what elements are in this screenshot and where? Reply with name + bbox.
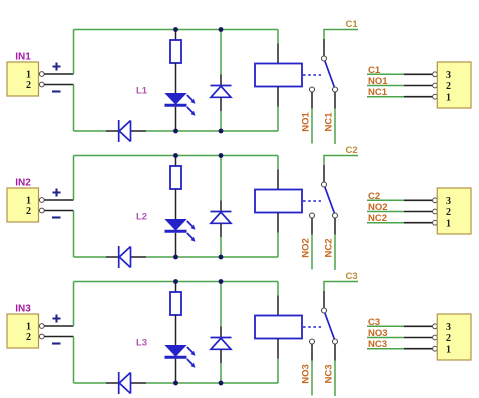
switch SW2 common terminal (322, 182, 327, 187)
wire relay coil bottom stub (277, 213, 279, 233)
wire flyback diode bottom segment (220, 237, 222, 257)
wire IN3 pin 2 to left rail (44, 336, 73, 338)
output connector body channel 1 (437, 62, 471, 108)
svg-text:C1: C1 (346, 19, 359, 30)
connector IN1 pin 1 terminal circle (39, 72, 44, 77)
connector IN2 pin 1 terminal circle (39, 198, 44, 203)
resistor R3 (170, 292, 181, 315)
wire IN1 pin 1 to left rail (44, 73, 73, 75)
wire net NO3 (311, 361, 313, 396)
svg-text:1: 1 (26, 322, 31, 333)
wire relay coil top stub (277, 44, 279, 64)
wire flyback diode bottom segment (220, 363, 222, 383)
wire IN2 pin 1 to left rail (44, 199, 73, 201)
svg-text:NC2: NC2 (324, 238, 335, 257)
wire top rail (74, 29, 279, 31)
wire bottom diode left stub (106, 130, 118, 132)
wire bottom diode left stub (106, 382, 118, 384)
wire resistor to LED (175, 63, 177, 94)
output connector pin 1 terminal circle (433, 94, 438, 99)
wire output pin 3 stub (404, 199, 432, 201)
output connector pin 2 terminal circle (433, 209, 438, 214)
wire net NC3 to output pin 1 (367, 348, 432, 350)
junction dot top diode node (219, 27, 224, 32)
svg-text:IN3: IN3 (15, 304, 31, 315)
diode D1b (flyback, cathode up) (211, 86, 232, 98)
relay actuation dashed link (303, 326, 321, 328)
junction dot bottom LED node (173, 129, 178, 134)
svg-text:2: 2 (446, 207, 451, 218)
wire bottom rail left of diode (74, 256, 107, 258)
relay coil RL2 (255, 190, 302, 213)
wire switch common stub (323, 39, 325, 56)
wire left rail upper segment (73, 30, 75, 75)
minus polarity mark (52, 90, 61, 92)
wire flyback diode bottom stub (220, 97, 222, 111)
wire bottom diode right stub (131, 382, 146, 384)
wire LED to bottom rail (175, 107, 177, 131)
wire right rail (relay column) (277, 30, 279, 132)
connector IN2 body (7, 188, 39, 222)
diode D3b (flyback, cathode up) (211, 338, 232, 350)
wire output pin 3 stub (404, 73, 432, 75)
wire resistor top stub (175, 282, 177, 293)
wire bottom rail right of diode (146, 382, 278, 384)
junction dot bottom diode node (219, 255, 224, 260)
wire relay coil bottom stub (277, 87, 279, 107)
svg-text:NC3: NC3 (324, 364, 335, 383)
wire flyback diode top stub (220, 75, 222, 86)
svg-text:L3: L3 (136, 338, 147, 349)
LED L3 light arrows (187, 347, 196, 368)
wire left rail lower segment (73, 211, 75, 258)
wire bottom rail left of diode (74, 130, 107, 132)
svg-text:NO1: NO1 (301, 112, 312, 132)
wire flyback diode top segment (220, 156, 222, 201)
LED L3 (165, 346, 187, 358)
wire bottom rail right of diode (146, 130, 278, 132)
wire resistor to LED (175, 315, 177, 346)
switch SW3 NO terminal (310, 339, 315, 344)
resistor R1 (170, 40, 181, 63)
switch SW1 common terminal (322, 56, 327, 61)
wire flyback diode bottom segment (220, 111, 222, 131)
connector IN1 body (7, 62, 39, 96)
wire flyback diode top stub (220, 327, 222, 338)
svg-text:2: 2 (26, 80, 31, 91)
output connector pin 3 terminal circle (433, 324, 438, 329)
wire LED to bottom rail (175, 359, 177, 383)
plus polarity mark (53, 63, 61, 71)
switch SW2 NC terminal (333, 213, 338, 218)
diode D3a (bottom, cathode left) (119, 372, 131, 394)
wire NO2 stub (311, 218, 313, 235)
wire relay coil top stub (277, 296, 279, 316)
svg-text:NO2: NO2 (301, 238, 312, 258)
wire resistor top stub (175, 156, 177, 167)
output connector body channel 3 (437, 314, 471, 360)
wire left rail lower segment (73, 337, 75, 384)
wire net NO1 (311, 109, 313, 144)
wire net NO1 to output pin 2 (367, 85, 404, 87)
wire bottom rail left of diode (74, 382, 107, 384)
svg-text:3: 3 (446, 322, 451, 333)
wire net NC1 (334, 109, 336, 145)
wire net C2 to output pin 3 (367, 199, 404, 201)
svg-text:1: 1 (446, 92, 451, 103)
svg-text:C3: C3 (346, 271, 358, 282)
junction dot bottom LED node (173, 255, 178, 260)
wire output pin 2 stub (404, 85, 432, 87)
wire top rail (74, 155, 279, 157)
output connector pin 1 terminal circle (433, 346, 438, 351)
diode D2a (bottom, cathode left) (119, 246, 131, 268)
wire NO3 stub (311, 344, 313, 361)
wire net NO2 to output pin 2 (367, 211, 404, 213)
junction dot top diode node (219, 279, 224, 284)
svg-text:1: 1 (26, 196, 31, 207)
svg-text:3: 3 (446, 70, 451, 81)
LED L1 (165, 94, 187, 106)
wire flyback diode bottom stub (220, 349, 222, 363)
junction dot top resistor node (173, 27, 178, 32)
minus polarity mark (52, 342, 61, 344)
relay coil RL1 (255, 64, 302, 87)
junction dot bottom LED node (173, 381, 178, 386)
svg-text:1: 1 (26, 70, 31, 81)
wire net C3 (up and right) (324, 282, 358, 292)
wire output pin 2 stub (404, 211, 432, 213)
wire resistor top stub (175, 30, 177, 41)
wire net C3 to output pin 3 (367, 325, 404, 327)
wire output pin 1 stub (404, 348, 432, 350)
svg-text:2: 2 (26, 206, 31, 217)
wire LED to bottom rail (175, 233, 177, 257)
switch SW1 NO terminal (310, 87, 315, 92)
wire net C1 to output pin 3 (367, 73, 404, 75)
diode D2b (flyback, cathode up) (211, 212, 232, 224)
connector IN2 pin 2 terminal circle (39, 208, 44, 213)
wire output pin 1 stub (404, 222, 432, 224)
junction dot top diode node (219, 153, 224, 158)
switch SW3 NC terminal (333, 339, 338, 344)
wire net C2 (up and right) (324, 156, 358, 166)
switch SW2 lever (325, 187, 335, 213)
relay actuation dashed link (303, 200, 321, 202)
wire top rail (74, 281, 279, 283)
wire flyback diode top segment (220, 30, 222, 75)
output connector pin 3 terminal circle (433, 72, 438, 77)
wire net NC3 (334, 361, 336, 397)
plus polarity mark (53, 189, 61, 197)
svg-text:L2: L2 (136, 212, 147, 223)
svg-text:NC1: NC1 (324, 112, 335, 132)
wire bottom rail right of diode (146, 256, 278, 258)
wire left rail upper segment (73, 156, 75, 201)
wire bottom diode right stub (131, 130, 146, 132)
wire bottom diode right stub (131, 256, 146, 258)
svg-text:IN2: IN2 (15, 178, 31, 189)
svg-text:1: 1 (446, 344, 451, 355)
wire NC1 stub (334, 92, 336, 109)
LED L1 light arrows (187, 95, 196, 116)
wire bottom diode left stub (106, 256, 118, 258)
wire net NO3 to output pin 2 (367, 337, 404, 339)
output connector body channel 2 (437, 188, 471, 234)
wire output pin 1 stub (404, 96, 432, 98)
wire relay coil bottom stub (277, 339, 279, 359)
svg-text:C2: C2 (346, 145, 358, 156)
output connector pin 2 terminal circle (433, 83, 438, 88)
minus polarity mark (52, 216, 61, 218)
junction dot top resistor node (173, 153, 178, 158)
wire relay coil top stub (277, 170, 279, 190)
LED L2 light arrows (187, 221, 196, 242)
switch SW1 lever (325, 61, 335, 87)
relay actuation dashed link (303, 74, 321, 76)
svg-text:IN1: IN1 (15, 52, 31, 63)
wire flyback diode bottom stub (220, 223, 222, 237)
wire IN3 pin 1 to left rail (44, 325, 73, 327)
wire left rail upper segment (73, 282, 75, 327)
wire flyback diode top stub (220, 201, 222, 212)
diode D1a (bottom, cathode left) (119, 120, 131, 142)
svg-text:2: 2 (446, 333, 451, 344)
output connector pin 3 terminal circle (433, 198, 438, 203)
svg-text:1: 1 (446, 218, 451, 229)
wire right rail (relay column) (277, 156, 279, 258)
wire left rail lower segment (73, 85, 75, 132)
wire output pin 3 stub (404, 325, 432, 327)
svg-text:NO3: NO3 (301, 364, 312, 384)
svg-text:3: 3 (446, 196, 451, 207)
wire IN1 pin 2 to left rail (44, 84, 73, 86)
LED L2 (165, 220, 187, 232)
wire net NC1 to output pin 1 (367, 96, 432, 98)
junction dot top resistor node (173, 279, 178, 284)
wire NC3 stub (334, 344, 336, 361)
relay coil RL3 (255, 316, 302, 339)
svg-text:2: 2 (446, 81, 451, 92)
wire switch common stub (323, 291, 325, 308)
output connector pin 2 terminal circle (433, 335, 438, 340)
wire NC2 stub (334, 218, 336, 235)
junction dot bottom diode node (219, 381, 224, 386)
plus polarity mark (53, 315, 61, 323)
connector IN3 pin 2 terminal circle (39, 334, 44, 339)
wire flyback diode top segment (220, 282, 222, 327)
svg-text:2: 2 (26, 332, 31, 343)
wire right rail (relay column) (277, 282, 279, 384)
connector IN3 pin 1 terminal circle (39, 324, 44, 329)
switch SW1 NC terminal (333, 87, 338, 92)
wire net NC2 to output pin 1 (367, 222, 432, 224)
junction dot bottom diode node (219, 129, 224, 134)
wire net NC2 (334, 235, 336, 271)
connector IN3 body (7, 314, 39, 348)
svg-text:L1: L1 (136, 86, 148, 97)
switch SW3 lever (325, 313, 335, 339)
switch SW3 common terminal (322, 308, 327, 313)
switch SW2 NO terminal (310, 213, 315, 218)
output connector pin 1 terminal circle (433, 220, 438, 225)
connector IN1 pin 2 terminal circle (39, 82, 44, 87)
wire switch common stub (323, 165, 325, 182)
wire net C1 (up and right) (324, 30, 358, 40)
wire IN2 pin 2 to left rail (44, 210, 73, 212)
wire NO1 stub (311, 92, 313, 109)
resistor R2 (170, 166, 181, 189)
wire net NO2 (311, 235, 313, 270)
wire resistor to LED (175, 189, 177, 220)
wire output pin 2 stub (404, 337, 432, 339)
